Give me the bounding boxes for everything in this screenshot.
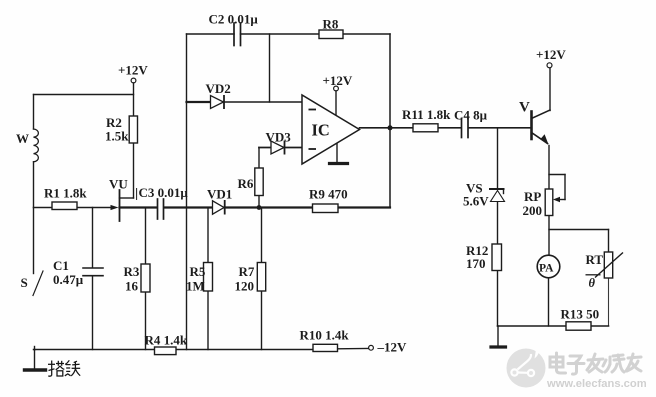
svg-text:VU: VU: [109, 177, 128, 192]
svg-text:S: S: [21, 275, 28, 290]
svg-text:C1: C1: [53, 258, 69, 273]
svg-text:120: 120: [235, 279, 255, 294]
svg-text:R11 1.8k: R11 1.8k: [402, 107, 451, 122]
svg-text:R9 470: R9 470: [309, 187, 348, 202]
svg-text:R13 50: R13 50: [561, 307, 600, 322]
svg-text:W: W: [16, 131, 29, 146]
svg-text:R6: R6: [238, 176, 254, 191]
svg-text:+12V: +12V: [536, 47, 566, 62]
svg-text:1.5k: 1.5k: [105, 129, 129, 144]
svg-text:C4 8μ: C4 8μ: [454, 108, 488, 123]
svg-text:θ: θ: [589, 276, 596, 290]
svg-text:RT: RT: [586, 252, 604, 267]
svg-text:VD3: VD3: [266, 130, 292, 145]
svg-text:–12V: –12V: [377, 340, 408, 355]
svg-text:www.elecfans.com: www.elecfans.com: [546, 378, 647, 390]
svg-text:R5: R5: [190, 264, 206, 279]
svg-text:IC: IC: [312, 121, 330, 140]
svg-text:5.6V: 5.6V: [463, 194, 489, 209]
svg-text:0.47μ: 0.47μ: [53, 272, 84, 287]
svg-text:1M: 1M: [186, 279, 205, 294]
svg-text:+12V: +12V: [118, 63, 148, 78]
svg-text:R7: R7: [239, 264, 255, 279]
svg-text:R4 1.4k: R4 1.4k: [145, 333, 188, 348]
svg-text:VD1: VD1: [207, 187, 232, 202]
svg-text:200: 200: [523, 203, 543, 218]
svg-text:+12V: +12V: [323, 73, 353, 88]
svg-text:R10 1.4k: R10 1.4k: [300, 328, 350, 343]
svg-text:V: V: [519, 100, 530, 116]
svg-text:170: 170: [466, 256, 486, 271]
svg-text:C3 0.01μ: C3 0.01μ: [139, 185, 189, 200]
svg-text:16: 16: [125, 279, 139, 294]
svg-text:RP: RP: [524, 189, 541, 204]
svg-text:PA: PA: [539, 263, 554, 275]
svg-text:R3: R3: [124, 264, 140, 279]
svg-text:R1 1.8k: R1 1.8k: [44, 186, 87, 201]
svg-text:VD2: VD2: [206, 81, 231, 96]
svg-text:C2 0.01μ: C2 0.01μ: [209, 12, 259, 27]
svg-text:R8: R8: [323, 17, 339, 32]
